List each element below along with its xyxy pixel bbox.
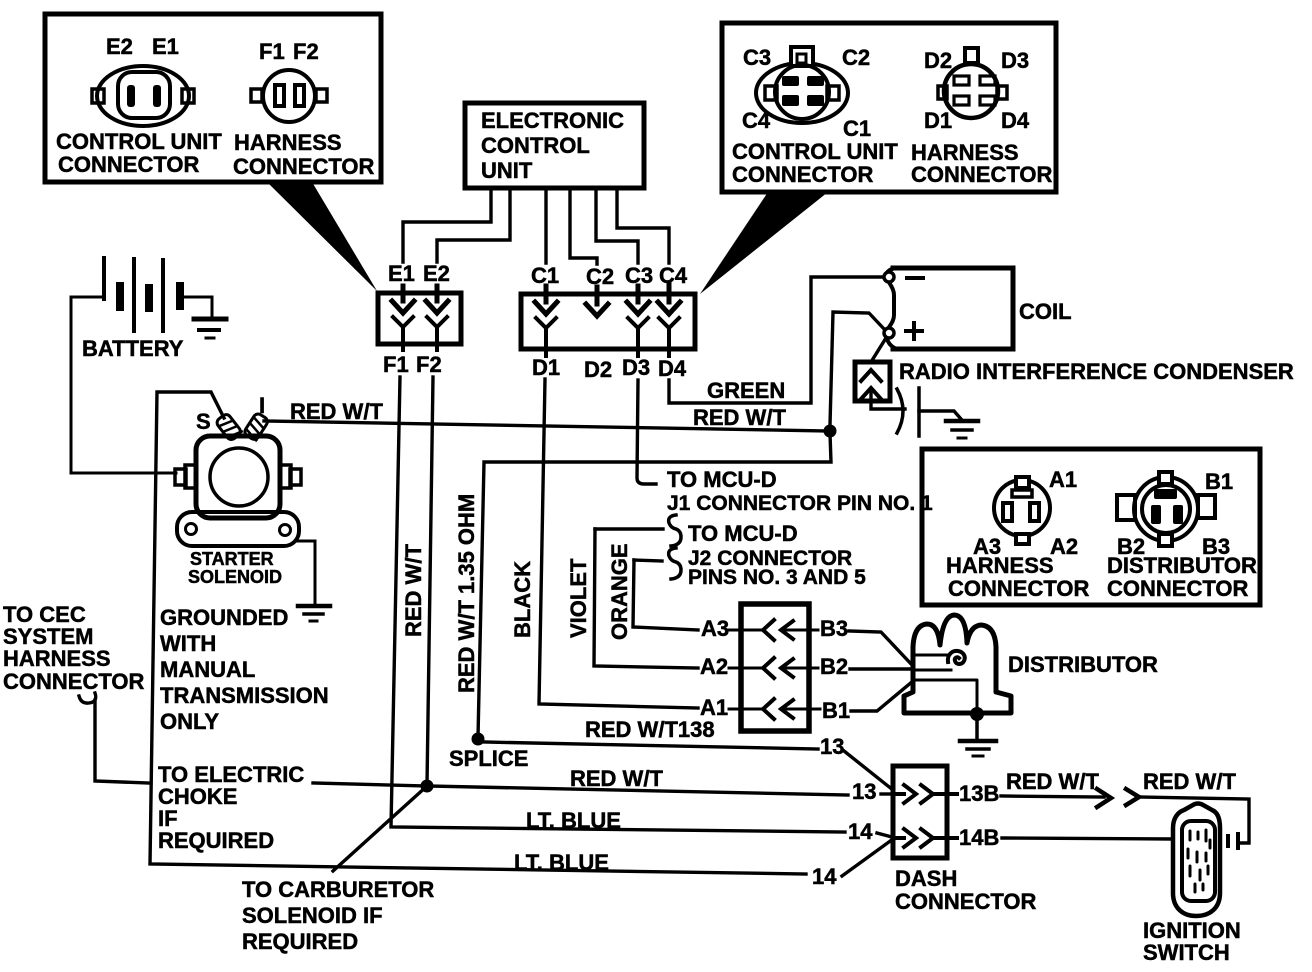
svg-text:CONTROL: CONTROL	[481, 133, 590, 158]
svg-text:RED W/T: RED W/T	[290, 399, 383, 424]
svg-text:E2: E2	[423, 261, 450, 286]
svg-text:STARTER: STARTER	[190, 549, 274, 569]
svg-text:A2: A2	[1050, 534, 1078, 559]
svg-text:C2: C2	[586, 264, 614, 289]
svg-text:C4: C4	[659, 263, 688, 288]
svg-text:13: 13	[820, 734, 844, 759]
svg-text:C2: C2	[842, 45, 870, 70]
svg-text:B3: B3	[820, 616, 848, 641]
svg-text:13B: 13B	[959, 781, 999, 806]
svg-text:ONLY: ONLY	[160, 709, 219, 734]
svg-text:F2: F2	[416, 352, 442, 377]
svg-text:CONTROL UNIT: CONTROL UNIT	[732, 139, 898, 164]
svg-text:BATTERY: BATTERY	[82, 336, 184, 361]
svg-text:F2: F2	[293, 39, 319, 64]
svg-text:ORANGE: ORANGE	[607, 543, 632, 640]
svg-text:CONNECTOR: CONNECTOR	[948, 576, 1089, 601]
svg-text:A2: A2	[700, 654, 728, 679]
svg-text:C4: C4	[742, 108, 771, 133]
svg-text:MANUAL: MANUAL	[160, 657, 255, 682]
svg-text:CONNECTOR: CONNECTOR	[895, 889, 1036, 914]
svg-text:D3: D3	[1001, 48, 1029, 73]
svg-text:RED W/T: RED W/T	[1006, 769, 1099, 794]
svg-text:HARNESS: HARNESS	[234, 130, 342, 155]
svg-text:14: 14	[812, 864, 837, 889]
svg-text:RED W/T: RED W/T	[570, 766, 663, 791]
svg-text:I: I	[259, 393, 265, 418]
svg-text:B1: B1	[1205, 469, 1233, 494]
svg-text:TO MCU-D: TO MCU-D	[688, 521, 798, 546]
svg-text:LT. BLUE: LT. BLUE	[526, 808, 621, 833]
svg-text:E1: E1	[388, 261, 415, 286]
svg-text:CONNECTOR: CONNECTOR	[3, 669, 144, 694]
svg-text:SPLICE: SPLICE	[449, 746, 528, 771]
svg-text:CONNECTOR: CONNECTOR	[1107, 576, 1248, 601]
svg-text:COIL: COIL	[1019, 299, 1072, 324]
svg-text:TRANSMISSION: TRANSMISSION	[160, 683, 329, 708]
svg-text:PINS NO. 3 AND 5: PINS NO. 3 AND 5	[688, 566, 866, 589]
svg-text:VIOLET: VIOLET	[566, 558, 591, 638]
svg-text:RED W/T 1.35 OHM: RED W/T 1.35 OHM	[454, 494, 479, 693]
svg-text:RED W/T: RED W/T	[401, 544, 426, 637]
svg-text:RED W/T138: RED W/T138	[585, 717, 715, 742]
svg-text:D1: D1	[532, 355, 560, 380]
svg-text:C3: C3	[625, 263, 653, 288]
svg-text:B1: B1	[822, 698, 850, 723]
svg-text:13: 13	[852, 779, 876, 804]
svg-text:CONNECTOR: CONNECTOR	[233, 154, 374, 179]
svg-text:D4: D4	[1001, 108, 1030, 133]
svg-text:DISTRIBUTOR: DISTRIBUTOR	[1008, 652, 1158, 677]
svg-text:RED W/T: RED W/T	[693, 405, 786, 430]
svg-text:BLACK: BLACK	[510, 561, 535, 638]
svg-text:WITH: WITH	[160, 631, 216, 656]
svg-text:UNIT: UNIT	[481, 158, 533, 183]
svg-text:CONNECTOR: CONNECTOR	[58, 152, 199, 177]
svg-text:D4: D4	[658, 356, 687, 381]
svg-text:DISTRIBUTOR: DISTRIBUTOR	[1107, 553, 1257, 578]
svg-text:SWITCH: SWITCH	[1143, 940, 1230, 965]
svg-text:B2: B2	[820, 654, 848, 679]
svg-text:CONTROL UNIT: CONTROL UNIT	[56, 129, 222, 154]
svg-text:CONNECTOR: CONNECTOR	[911, 162, 1052, 187]
svg-text:GROUNDED: GROUNDED	[160, 605, 288, 630]
svg-text:F1: F1	[383, 352, 409, 377]
svg-text:REQUIRED: REQUIRED	[242, 929, 358, 954]
svg-text:E1: E1	[152, 34, 179, 59]
svg-text:C1: C1	[843, 116, 871, 141]
svg-text:GREEN: GREEN	[707, 378, 785, 403]
svg-text:CONNECTOR: CONNECTOR	[732, 162, 873, 187]
svg-text:14B: 14B	[959, 825, 999, 850]
svg-text:14: 14	[848, 819, 873, 844]
svg-text:DASH: DASH	[895, 866, 957, 891]
svg-text:J1 CONNECTOR PIN NO. 1: J1 CONNECTOR PIN NO. 1	[667, 492, 933, 515]
svg-text:SOLENOID: SOLENOID	[188, 567, 282, 587]
svg-text:D2: D2	[584, 357, 612, 382]
svg-text:E2: E2	[106, 34, 133, 59]
svg-text:D1: D1	[924, 108, 952, 133]
svg-text:D3: D3	[622, 355, 650, 380]
svg-text:S: S	[196, 409, 211, 434]
svg-text:C3: C3	[743, 45, 771, 70]
svg-text:REQUIRED: REQUIRED	[158, 828, 274, 853]
svg-text:ELECTRONIC: ELECTRONIC	[481, 108, 624, 133]
svg-text:A1: A1	[1049, 467, 1077, 492]
svg-text:TO CARBURETOR: TO CARBURETOR	[242, 877, 434, 902]
svg-text:RADIO INTERFERENCE CONDENSER: RADIO INTERFERENCE CONDENSER	[899, 359, 1294, 384]
svg-text:RED W/T: RED W/T	[1143, 769, 1236, 794]
svg-text:LT. BLUE: LT. BLUE	[514, 850, 609, 875]
svg-text:C1: C1	[531, 263, 559, 288]
svg-text:F1: F1	[259, 39, 285, 64]
svg-text:D2: D2	[924, 48, 952, 73]
svg-text:A3: A3	[701, 616, 729, 641]
svg-text:SOLENOID IF: SOLENOID IF	[242, 903, 383, 928]
svg-text:HARNESS: HARNESS	[3, 646, 111, 671]
svg-text:TO MCU-D: TO MCU-D	[667, 467, 777, 492]
svg-text:HARNESS: HARNESS	[946, 553, 1054, 578]
